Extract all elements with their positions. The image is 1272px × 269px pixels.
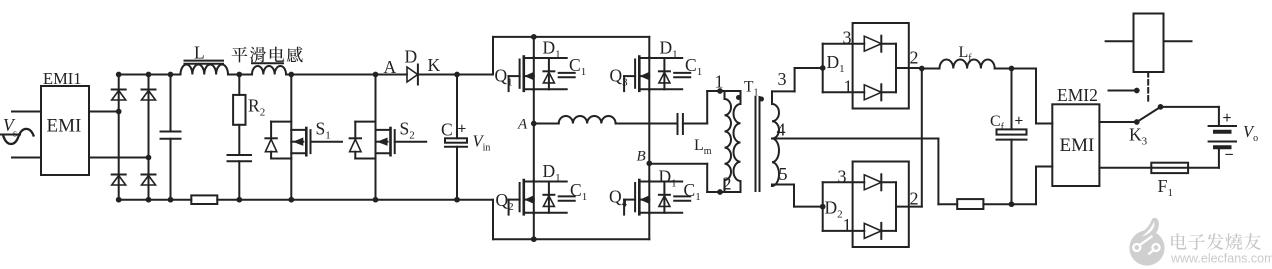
svg-text:K: K xyxy=(428,55,441,75)
svg-text:−: − xyxy=(1225,147,1234,164)
svg-text:2: 2 xyxy=(910,48,919,68)
svg-text:3: 3 xyxy=(778,69,787,89)
svg-text:L: L xyxy=(194,43,205,63)
svg-text:EMI1: EMI1 xyxy=(43,69,82,88)
svg-text:+: + xyxy=(1223,110,1232,127)
svg-text:C: C xyxy=(441,120,453,140)
svg-text:4: 4 xyxy=(777,120,786,140)
svg-text:1: 1 xyxy=(715,72,724,92)
svg-text:EMI2: EMI2 xyxy=(1057,85,1098,105)
svg-text:www.elecfans.com: www.elecfans.com xyxy=(1170,252,1272,266)
svg-text:+: + xyxy=(1015,113,1024,130)
svg-text:1: 1 xyxy=(844,77,853,97)
svg-text:A: A xyxy=(384,57,397,77)
svg-text:2: 2 xyxy=(910,189,919,209)
svg-text:1: 1 xyxy=(843,215,852,235)
svg-text:EMI: EMI xyxy=(47,116,82,137)
svg-text:3: 3 xyxy=(838,167,847,187)
svg-text:+: + xyxy=(458,121,467,138)
svg-text:5: 5 xyxy=(779,164,788,184)
svg-text:3: 3 xyxy=(843,28,852,48)
svg-text:B: B xyxy=(637,149,646,165)
svg-text:A: A xyxy=(517,117,528,133)
svg-text:EMI: EMI xyxy=(1060,135,1095,156)
svg-text:D: D xyxy=(405,47,418,67)
svg-text:2: 2 xyxy=(723,174,732,194)
